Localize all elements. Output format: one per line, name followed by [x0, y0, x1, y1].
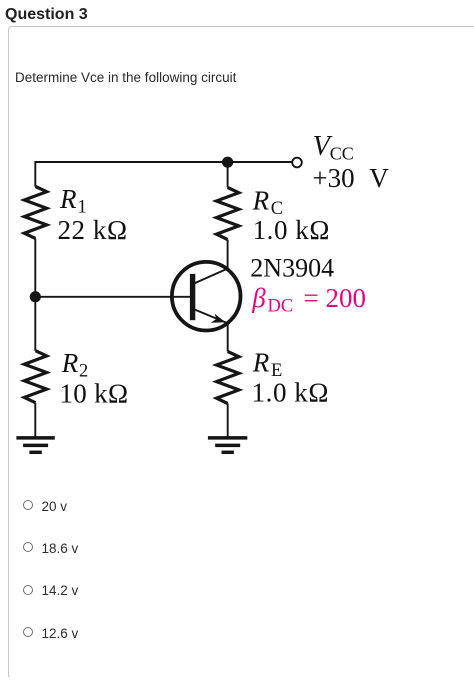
wire: RE to ground: [227, 404, 229, 438]
svg-text:1.0 kΩ: 1.0 kΩ: [252, 378, 329, 408]
ground symbol (left, under R2): [16, 438, 54, 452]
svg-text:CC: CC: [330, 144, 354, 164]
Vcc open terminal: [292, 158, 302, 168]
svg-text:R: R: [252, 186, 270, 216]
svg-text:R: R: [61, 348, 79, 378]
wire: left branch bottom (R2 to ground): [34, 403, 36, 438]
page title: [5, 6, 88, 23]
resistor RC: [216, 188, 238, 240]
resistor R2: [24, 351, 46, 403]
wire: base lead: [35, 296, 191, 298]
svg-text:2N3904: 2N3904: [250, 254, 334, 283]
svg-text:+30: +30: [312, 163, 354, 193]
svg-text:R: R: [252, 348, 270, 378]
transistor collector stroke: [194, 268, 228, 283]
resistor RE: [217, 352, 239, 404]
transistor base bar: [190, 274, 195, 320]
answer option 18.6 v: [23, 540, 79, 554]
svg-text:DC: DC: [268, 297, 294, 317]
answer option 20 v: [23, 498, 68, 512]
svg-text:1.0 kΩ: 1.0 kΩ: [253, 215, 330, 245]
svg-text:22 kΩ: 22 kΩ: [58, 215, 128, 245]
svg-text:β: β: [251, 283, 266, 313]
node: base junction dot on divider: [30, 291, 41, 302]
transistor emitter stroke: [194, 309, 228, 323]
svg-text:= 200: = 200: [304, 283, 366, 313]
answer option 12.6 v: [23, 625, 79, 639]
label beta DC = 200: [251, 283, 366, 317]
wire: RC to transistor collector: [227, 240, 229, 273]
wire: collector rail top (junction to RC): [227, 162, 229, 188]
ground symbol (right, under RE): [208, 438, 247, 452]
wire: top rail from left branch to Vcc terminal, with left drop to R1: [35, 162, 292, 187]
transistor Q1 2N3904 body: [172, 262, 241, 331]
svg-text:R: R: [59, 184, 77, 214]
svg-text:10 kΩ: 10 kΩ: [60, 378, 129, 408]
transistor emitter arrowhead: [211, 314, 225, 323]
svg-text:V: V: [369, 163, 389, 193]
wire: transistor emitter to RE: [227, 318, 229, 352]
question prompt: [15, 70, 236, 85]
node: collector-rail junction dot: [222, 157, 233, 168]
wire: left branch middle (R1 to R2 through base node): [34, 239, 36, 351]
answer option 14.2 v: [23, 583, 79, 597]
resistor R1: [24, 187, 46, 239]
